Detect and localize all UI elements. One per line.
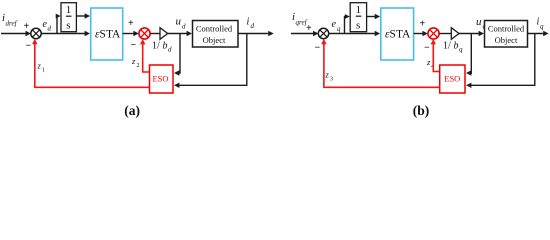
svg-text:e: e	[332, 19, 337, 30]
svg-text:+: +	[306, 23, 312, 34]
wire S2a to gain	[150, 33, 160, 35]
node e_d label	[43, 19, 52, 33]
extended state observer ESO block (a)	[150, 65, 174, 93]
svg-text:1: 1	[356, 4, 362, 16]
node z_2 label	[131, 56, 140, 69]
svg-text:s: s	[66, 19, 70, 31]
arrow into controlled object (b)	[479, 31, 484, 36]
node e_q label	[332, 19, 342, 33]
wire i_q branch down to ESO (b)	[470, 34, 535, 86]
node i_dref label	[2, 12, 18, 28]
svg-text:z: z	[131, 56, 136, 66]
svg-text:u: u	[176, 16, 182, 28]
svg-text:b: b	[163, 41, 168, 52]
controlled object block (a)	[193, 21, 239, 48]
wire gain to controlled object	[168, 33, 188, 35]
arrow into eSTA lower input	[85, 31, 90, 36]
arrow i_d output	[268, 31, 273, 36]
summing junction S1b	[318, 28, 328, 38]
svg-text:/: /	[157, 41, 160, 52]
svg-text:Controlled: Controlled	[488, 24, 525, 34]
summing junction S2b (red)	[428, 28, 439, 39]
arrow into S1b	[313, 31, 318, 36]
wire i_d branch down to ESO (a)	[178, 34, 247, 86]
node i_q label	[537, 17, 545, 31]
svg-text:ESO: ESO	[152, 73, 168, 83]
wire z2 feedback (red) ESO to S2a	[143, 41, 150, 72]
svg-text:u: u	[476, 16, 482, 28]
arrow into integrator (b)	[345, 14, 350, 19]
arrow into S1a	[26, 31, 31, 36]
svg-text:+: +	[24, 21, 30, 32]
arrow z4 into S2b	[431, 39, 436, 44]
gain label 1/b_q	[443, 41, 463, 54]
arrow u_d into ESO (a)	[174, 70, 179, 75]
svg-text:−: −	[26, 41, 32, 52]
node i_qref label	[292, 11, 308, 27]
wire S2b to gain	[439, 33, 451, 35]
svg-text:d: d	[182, 23, 186, 31]
svg-text:s: s	[356, 19, 360, 31]
arrow into S2b	[422, 31, 427, 36]
wire u_q branch down to ESO (b)	[470, 34, 472, 74]
extended state observer ESO block (b)	[440, 65, 465, 93]
svg-text:Controlled: Controlled	[196, 24, 233, 34]
svg-text:d: d	[168, 46, 172, 54]
integrator block 1/s (b)	[350, 3, 366, 32]
arrow into controlled object (a)	[187, 31, 192, 36]
controlled object block (b)	[485, 21, 528, 48]
svg-text:i: i	[247, 17, 250, 28]
svg-text:1: 1	[42, 68, 45, 74]
arrow i_q into ESO (b)	[466, 83, 471, 88]
svg-text:b: b	[454, 41, 459, 52]
wire i_d output	[238, 33, 269, 35]
wire i_qref input	[291, 33, 314, 35]
super-twisting controller block eSTA (b)	[381, 8, 414, 60]
wire branch up to integrator	[56, 16, 59, 34]
svg-text:z: z	[325, 70, 330, 80]
wire integrator to eSTA (b)	[367, 16, 376, 18]
svg-text:εSTA: εSTA	[385, 28, 411, 40]
wire z4 feedback (red) ESO to S2b	[433, 41, 439, 72]
svg-text:d: d	[48, 25, 52, 33]
svg-text:−: −	[424, 43, 430, 54]
wire z3 feedback (red) ESO to S1b	[324, 41, 440, 87]
wire i_dref input	[1, 33, 26, 35]
svg-text:dref: dref	[6, 20, 18, 28]
wire u_d branch down to ESO (a)	[178, 34, 181, 74]
wire gain to controlled object (b)	[459, 33, 480, 35]
wire eSTA to summing junction S2b	[414, 33, 423, 35]
svg-text:Object: Object	[203, 35, 226, 45]
svg-text:3: 3	[330, 77, 333, 83]
node u_q label	[476, 16, 487, 31]
node z_1 label	[37, 61, 46, 74]
svg-text:1: 1	[66, 4, 72, 16]
node z_4 label	[426, 57, 434, 70]
arrow into eSTA upper input	[85, 13, 90, 18]
svg-text:z: z	[37, 61, 42, 71]
arrow i_d into ESO (a)	[174, 83, 179, 88]
arrow into eSTA (b) upper input	[375, 14, 380, 19]
arrow z2 into S2a	[140, 39, 145, 44]
wire eSTA to summing junction S2a	[123, 33, 134, 35]
summing junction S1a	[31, 28, 41, 38]
gain label 1/b_d	[152, 41, 172, 54]
arrow z1 into S1a	[32, 39, 37, 44]
svg-text:q: q	[337, 25, 341, 33]
arrow u_q into ESO (b)	[466, 70, 471, 75]
node i_d label	[247, 17, 255, 31]
svg-text:+: +	[420, 19, 426, 30]
wire branch up to integrator (b)	[344, 17, 347, 34]
svg-text:+: +	[128, 18, 134, 29]
wire integrator to eSTA	[76, 15, 85, 17]
svg-text:2: 2	[137, 63, 140, 69]
arrow z3 into S1b	[321, 39, 326, 44]
node z_3 label	[325, 70, 334, 83]
svg-text:ESO: ESO	[444, 73, 460, 83]
svg-text:(a): (a)	[124, 103, 140, 118]
wire i_q output	[528, 33, 545, 35]
arrow into S2a	[133, 31, 138, 36]
arrow i_q output	[543, 31, 548, 36]
svg-text:(b): (b)	[413, 103, 430, 118]
gain block 1/b_d triangle	[160, 28, 168, 40]
svg-text:εSTA: εSTA	[95, 28, 121, 40]
svg-text:q: q	[540, 23, 544, 31]
summing junction S2a (red)	[139, 28, 150, 39]
gain block 1/b_q triangle	[451, 28, 459, 40]
svg-text:−: −	[131, 40, 137, 51]
svg-text:/: /	[448, 41, 451, 52]
svg-text:q: q	[459, 46, 463, 54]
super-twisting controller block eSTA (a)	[91, 8, 123, 60]
arrow into eSTA (b) lower input	[375, 31, 380, 36]
integrator block 1/s (a)	[61, 3, 76, 32]
svg-text:d: d	[251, 22, 255, 30]
node u_d label	[176, 16, 187, 31]
wire S1a to eSTA	[41, 33, 85, 35]
wire z1 feedback (red) ESO to S1a	[35, 41, 150, 87]
svg-text:Object: Object	[495, 35, 518, 45]
wire S1b to eSTA	[329, 33, 376, 35]
arrow into integrator	[56, 14, 61, 19]
svg-text:−: −	[315, 43, 321, 54]
